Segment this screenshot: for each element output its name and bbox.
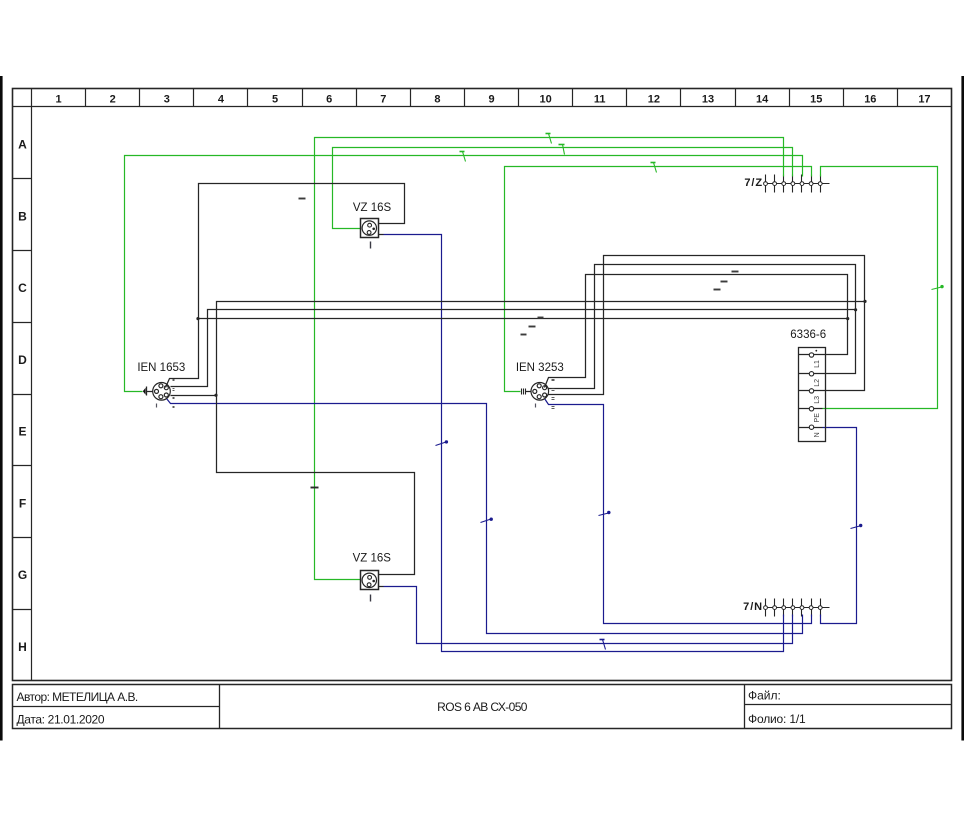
svg-text:1: 1 [55, 93, 61, 105]
svg-text:ROS 6 АВ СХ-050: ROS 6 АВ СХ-050 [437, 700, 528, 714]
svg-text:17: 17 [918, 93, 930, 105]
svg-text:D: D [18, 353, 27, 367]
svg-text:L3: L3 [814, 396, 821, 404]
svg-text:6: 6 [326, 93, 332, 105]
svg-text:H: H [18, 640, 27, 654]
svg-text:6336-6: 6336-6 [790, 329, 826, 341]
svg-text:N: N [814, 432, 821, 437]
svg-text:5: 5 [272, 93, 278, 105]
svg-text:A: A [18, 138, 27, 152]
svg-text:VZ 16S: VZ 16S [353, 553, 392, 565]
svg-text:VZ 16S: VZ 16S [353, 202, 392, 214]
svg-text:4: 4 [218, 93, 225, 105]
svg-text:IEN 3253: IEN 3253 [516, 362, 564, 374]
svg-text:2: 2 [110, 93, 116, 105]
svg-text:8: 8 [434, 93, 440, 105]
svg-text:E: E [18, 425, 26, 439]
svg-text:PE: PE [814, 413, 821, 423]
svg-text:7/Z: 7/Z [744, 177, 763, 189]
svg-text:B: B [18, 209, 27, 223]
svg-text:9: 9 [488, 93, 494, 105]
svg-text:14: 14 [756, 93, 769, 105]
svg-text:7/N: 7/N [743, 601, 763, 613]
svg-text:16: 16 [864, 93, 876, 105]
svg-text:Автор: МЕТЕЛИЦА А.В.: Автор: МЕТЕЛИЦА А.В. [17, 690, 138, 704]
svg-text:L1: L1 [814, 360, 821, 368]
svg-text:10: 10 [539, 93, 551, 105]
svg-text:12: 12 [648, 93, 660, 105]
svg-text:3: 3 [164, 93, 170, 105]
svg-text:15: 15 [810, 93, 822, 105]
svg-text:11: 11 [594, 93, 606, 105]
svg-text:7: 7 [380, 93, 386, 105]
svg-text:F: F [19, 496, 26, 510]
svg-text:C: C [18, 281, 27, 295]
svg-text:Дата: 21.01.2020: Дата: 21.01.2020 [17, 713, 105, 727]
svg-text:IEN 1653: IEN 1653 [137, 362, 185, 374]
svg-text:L2: L2 [814, 379, 821, 387]
svg-text:Файл:: Файл: [748, 689, 781, 703]
svg-text:13: 13 [702, 93, 714, 105]
svg-text:Фолио: 1/1: Фолио: 1/1 [748, 712, 806, 726]
svg-text:G: G [18, 568, 27, 582]
